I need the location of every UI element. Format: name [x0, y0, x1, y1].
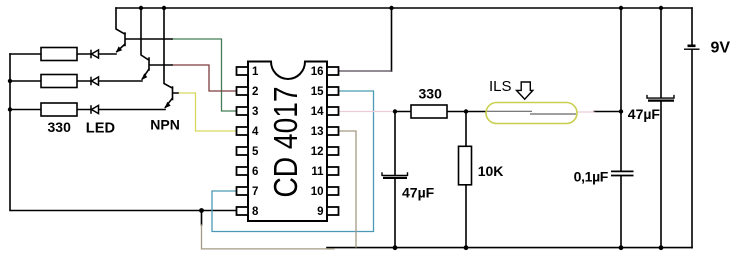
svg-text:ILS: ILS	[489, 78, 512, 95]
svg-text:CD 4017: CD 4017	[267, 87, 304, 198]
svg-text:10: 10	[311, 186, 324, 198]
svg-text:330: 330	[419, 86, 443, 102]
svg-text:47µF: 47µF	[402, 184, 435, 200]
svg-text:12: 12	[311, 146, 324, 158]
svg-text:14: 14	[311, 106, 324, 118]
svg-text:NPN: NPN	[150, 116, 180, 132]
svg-text:8: 8	[252, 206, 259, 218]
svg-text:2: 2	[252, 86, 258, 98]
svg-text:6: 6	[252, 166, 258, 178]
svg-text:9: 9	[317, 206, 323, 218]
svg-text:4: 4	[252, 126, 259, 138]
svg-text:10K: 10K	[478, 163, 504, 179]
svg-text:7: 7	[252, 186, 258, 198]
svg-text:16: 16	[311, 66, 324, 78]
svg-text:0,1µF: 0,1µF	[574, 168, 609, 184]
svg-text:3: 3	[252, 106, 258, 118]
svg-text:11: 11	[311, 166, 324, 178]
svg-text:330: 330	[48, 119, 72, 135]
svg-text:47µF: 47µF	[628, 106, 661, 122]
svg-text:13: 13	[311, 126, 324, 138]
svg-text:5: 5	[252, 146, 259, 158]
svg-text:9V: 9V	[711, 40, 731, 57]
svg-text:LED: LED	[86, 121, 115, 137]
svg-text:15: 15	[311, 86, 324, 98]
svg-text:1: 1	[252, 66, 259, 78]
